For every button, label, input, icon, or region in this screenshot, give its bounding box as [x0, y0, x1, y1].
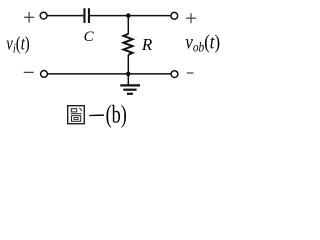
resistor R1 zigzag — [124, 34, 133, 55]
plus sign top-right — [186, 13, 196, 23]
wire capacitor to top-right terminal — [90, 15, 171, 17]
minus sign bottom-right — [187, 72, 194, 74]
node junction bottom — [126, 72, 131, 77]
wire resistor to bottom node — [127, 55, 129, 74]
svg-text:R: R — [141, 35, 153, 54]
wire top-left to capacitor — [47, 15, 83, 17]
ground symbol bars — [120, 85, 140, 93]
svg-text:vi(t): vi(t) — [6, 33, 29, 56]
ground stub — [127, 74, 129, 85]
terminal bottom-right — [171, 71, 178, 78]
terminal top-left — [40, 12, 47, 19]
terminal top-right — [171, 12, 178, 19]
plus sign top-left — [24, 12, 34, 23]
minus sign bottom-left — [24, 71, 34, 73]
wire bottom — [48, 73, 171, 75]
wire node to resistor — [127, 16, 129, 34]
svg-text:C: C — [84, 29, 95, 45]
capacitor C1 plates — [83, 8, 90, 23]
caption glyph 圖 (drawn) — [68, 106, 85, 124]
svg-text:(b): (b) — [106, 101, 127, 128]
terminal bottom-left — [41, 71, 48, 78]
caption glyph 一 (drawn) — [89, 114, 104, 116]
node junction top — [126, 13, 131, 18]
